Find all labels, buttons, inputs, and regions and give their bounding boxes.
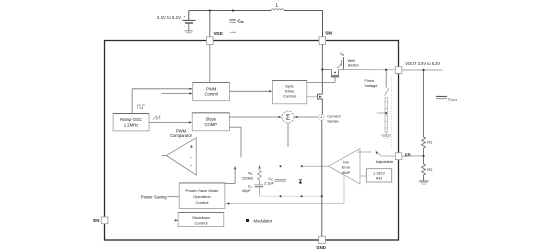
- pin VOUT: [395, 67, 402, 74]
- op-amp PWM Comparator: [162, 128, 197, 175]
- svg-text:+: +: [190, 145, 193, 151]
- capacitor CL 40pF: [242, 184, 263, 196]
- svg-text:EN: EN: [93, 218, 99, 223]
- svg-text:1.2MHz: 1.2MHz: [124, 123, 138, 128]
- divider Fixed Voltage: [365, 70, 392, 148]
- svg-text:Comparator: Comparator: [170, 133, 193, 138]
- wire current sense to summing node: [294, 116, 318, 118]
- svg-text:RL: RL: [248, 171, 253, 176]
- svg-text:Ref: Ref: [376, 177, 383, 181]
- pin SW: [319, 37, 326, 45]
- svg-text:Power Saving: Power Saving: [141, 194, 168, 199]
- svg-text:Control: Control: [196, 200, 209, 205]
- wire sync drive to PMOS gate: [307, 82, 335, 84]
- svg-text:2.2V to 5.2V: 2.2V to 5.2V: [157, 15, 181, 20]
- wire SW drop: [322, 11, 324, 37]
- svg-text:Slope: Slope: [205, 116, 216, 121]
- svg-text:Gm: Gm: [343, 160, 349, 164]
- wire comp ground rail: [260, 195, 322, 197]
- svg-text:+: +: [183, 15, 185, 19]
- svg-text:L: L: [276, 3, 279, 9]
- block PWM Control: [193, 82, 230, 100]
- pin GND: [319, 236, 326, 243]
- svg-text:1.192V: 1.192V: [373, 172, 386, 176]
- transistor Well Switch: [337, 52, 359, 70]
- transistor NMOS low-side: [318, 94, 323, 114]
- svg-text:CIN: CIN: [237, 18, 243, 24]
- svg-text:Sense: Sense: [327, 118, 339, 123]
- svg-text:VB: VB: [340, 52, 344, 57]
- wire PMOS to VOUT pin: [339, 69, 396, 71]
- wire R1 to R2: [423, 148, 425, 164]
- label Modulator: [246, 218, 273, 223]
- wire Ramp-OSC top to PWM Control: [132, 88, 193, 114]
- svg-text:Control: Control: [283, 93, 296, 98]
- wire Ramp-OSC to Slope COMP: [149, 121, 192, 123]
- svg-text:Σ: Σ: [286, 113, 291, 122]
- wire Slope COMP to summing node: [229, 116, 281, 118]
- wire FB internal and switch: [357, 151, 395, 157]
- svg-text:Ramp-OSC: Ramp-OSC: [120, 117, 142, 122]
- wire PWM Control to Sync Drive Control: [230, 90, 273, 92]
- svg-text:FB: FB: [405, 152, 411, 157]
- waveform clock glyph: [138, 105, 146, 109]
- wire summing node down: [287, 123, 289, 147]
- wire power-save to Gm AMP: [225, 176, 344, 205]
- node SW rectifier junction: [321, 68, 323, 70]
- pin FB: [395, 153, 402, 160]
- wire VDD to PWM Control: [209, 45, 211, 83]
- node FB tap: [422, 155, 424, 157]
- wire Gm AMP out: [302, 165, 329, 167]
- wire EN to Shutdown Control: [174, 219, 178, 221]
- pin EN: [101, 217, 108, 224]
- capacitor COUT: [436, 96, 458, 102]
- wire Slope COMP lower output: [229, 127, 241, 157]
- node comp net dots: [280, 165, 282, 167]
- waveform ramp glyph: [153, 116, 160, 120]
- svg-text:R1: R1: [427, 139, 432, 144]
- block Shutdown Control: [178, 212, 224, 226]
- wire VOUT external: [403, 69, 443, 137]
- node GND line junction: [321, 195, 323, 197]
- inductor L: [271, 9, 284, 11]
- block Ramp-OSC 1.2MHz: [113, 114, 149, 131]
- capacitor CIN: [229, 18, 243, 24]
- pin VDD: [207, 37, 214, 45]
- svg-text:Well: Well: [348, 59, 355, 63]
- svg-text:Shutdown: Shutdown: [192, 215, 210, 220]
- block reference 1.192V: [366, 169, 391, 182]
- svg-text:40pF: 40pF: [242, 189, 251, 193]
- svg-text:SW: SW: [325, 31, 333, 36]
- ground (CIN): [230, 31, 236, 33]
- svg-text:Adjustable: Adjustable: [376, 160, 394, 164]
- resistor R2: [422, 164, 433, 175]
- ground (divider external): [419, 181, 429, 185]
- svg-text:R2: R2: [427, 167, 432, 172]
- svg-text:Operation: Operation: [193, 194, 211, 199]
- svg-text:Modulator: Modulator: [254, 218, 273, 223]
- wire divider tap: [377, 112, 387, 114]
- block Slope COMP: [192, 113, 229, 131]
- svg-text:COMP: COMP: [205, 122, 218, 127]
- current sense: [318, 114, 341, 124]
- svg-text:COUT: COUT: [448, 96, 457, 102]
- svg-text:Error: Error: [342, 166, 351, 170]
- svg-text:Switch: Switch: [348, 64, 359, 68]
- resistor RL 220k: [242, 165, 261, 184]
- svg-text:2.2pF: 2.2pF: [264, 182, 274, 186]
- svg-text:220kΩ: 220kΩ: [242, 177, 253, 181]
- block Power-Save Mode Operation Control: [179, 183, 225, 209]
- wire NMOS to GND pin: [321, 120, 323, 236]
- svg-text:−: −: [190, 164, 193, 169]
- summing node: [282, 111, 294, 123]
- node CIN rail: [232, 9, 234, 11]
- node VDD rail: [209, 9, 211, 11]
- svg-text:AMP: AMP: [342, 171, 351, 175]
- wire power-save to comparator: [225, 166, 236, 184]
- op-amp Gm Error AMP: [329, 149, 360, 185]
- svg-text:VOUT 3.0V to 5.2V: VOUT 3.0V to 5.2V: [405, 61, 440, 66]
- IC U1 body: [105, 41, 399, 241]
- svg-text:Control: Control: [195, 221, 208, 226]
- wire rail to SW: [284, 10, 323, 12]
- diode clamp: [299, 180, 302, 184]
- svg-text:PWM: PWM: [206, 86, 217, 91]
- capacitor CC 2.2pF: [264, 177, 286, 186]
- wire comparator out to PWM Control: [162, 92, 193, 94]
- wire VDD drop: [209, 11, 211, 37]
- resistor R1: [422, 137, 433, 148]
- node VOUT fixed divider junction: [385, 69, 387, 71]
- wire R2 to ground: [423, 175, 425, 181]
- svg-text:Voltage: Voltage: [365, 83, 378, 88]
- wire ref to Gm AMP: [360, 175, 366, 177]
- wire top rail: [189, 10, 271, 12]
- battery V1 2.2V to 5.2V: [157, 11, 196, 31]
- block Sync Drive Control: [272, 80, 306, 103]
- ground (battery): [185, 31, 193, 34]
- svg-text:−: −: [183, 25, 185, 29]
- label Power Saving: [141, 194, 179, 199]
- svg-text:Power-Save Mode: Power-Save Mode: [186, 188, 220, 193]
- svg-text:GND: GND: [316, 245, 326, 250]
- svg-text:Control: Control: [204, 92, 218, 97]
- wire SW internal: [321, 44, 323, 94]
- transistor rectifier PMOS: [322, 70, 339, 83]
- svg-text:VDD: VDD: [214, 31, 223, 36]
- svg-text:−: −: [190, 156, 193, 161]
- wire sync drive to NMOS gate: [307, 96, 317, 98]
- wire FB tap to pin: [403, 155, 424, 157]
- ground (divider): [381, 132, 391, 138]
